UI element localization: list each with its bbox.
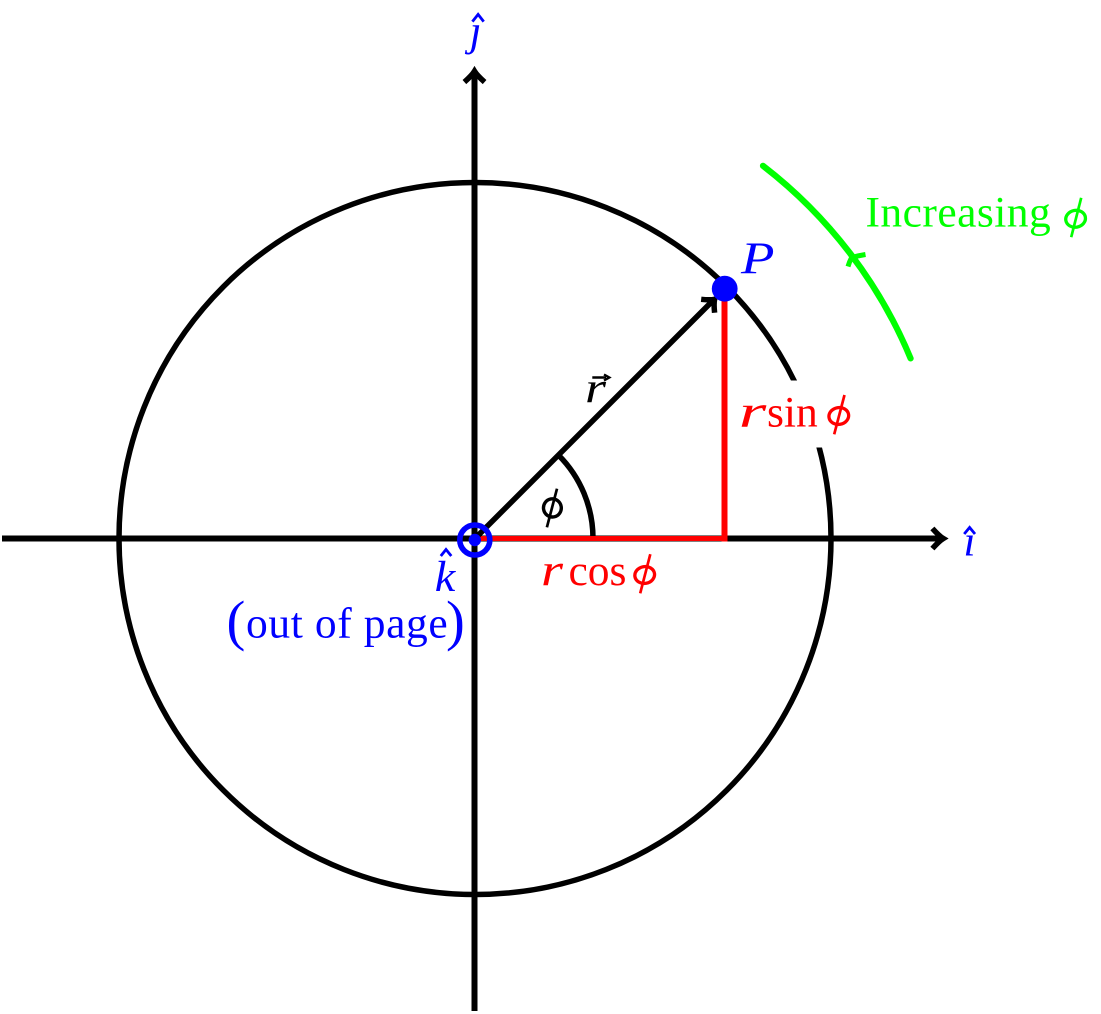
svg-text:sin: sin <box>767 389 818 437</box>
svg-text:(: ( <box>227 591 246 653</box>
svg-text:out of page: out of page <box>246 600 448 648</box>
svg-text:r: r <box>585 365 607 413</box>
svg-text:P: P <box>740 234 775 284</box>
svg-text:ı: ı <box>964 518 976 566</box>
svg-text:): ) <box>446 591 465 653</box>
svg-text:Increasing: Increasing <box>866 189 1052 237</box>
svg-text:r: r <box>739 386 768 437</box>
svg-text:r: r <box>541 545 564 595</box>
svg-text:cos: cos <box>569 547 627 595</box>
